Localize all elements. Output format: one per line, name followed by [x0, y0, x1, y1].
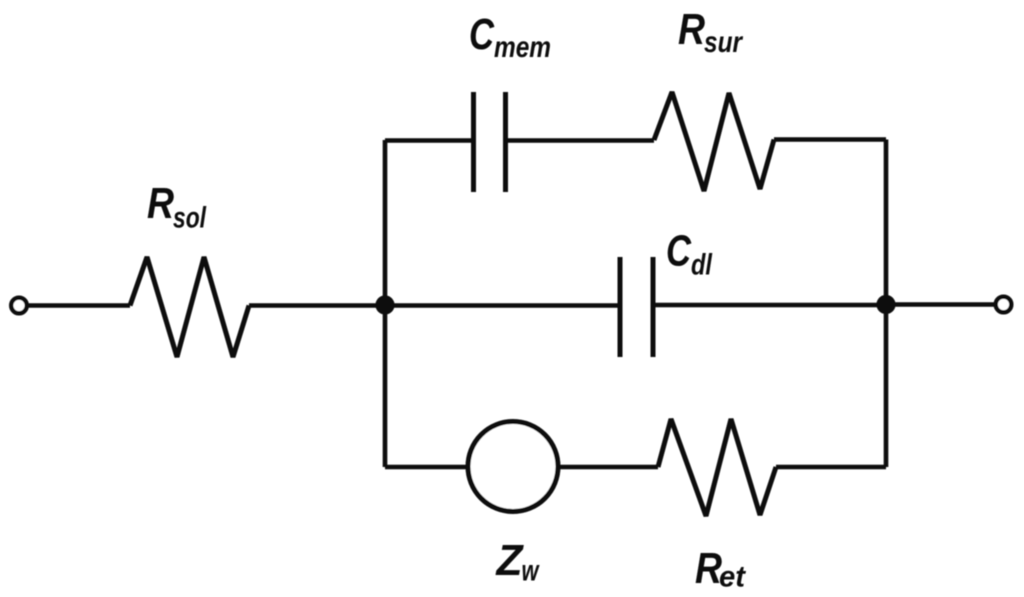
resistor R_sur	[654, 92, 774, 191]
label C_dl	[666, 228, 713, 282]
svg-text:R: R	[678, 6, 705, 54]
wire C_dl to node B	[653, 303, 886, 308]
wire R_sur to right corner	[774, 137, 886, 142]
node A junction dot	[375, 295, 394, 314]
svg-text:Z: Z	[495, 537, 524, 585]
resistor R_et	[658, 419, 776, 516]
wire bottom branch left	[385, 465, 468, 470]
label Z_w	[495, 537, 540, 588]
label C_mem	[469, 11, 551, 64]
svg-text:sol: sol	[173, 202, 206, 235]
svg-text:w: w	[522, 555, 540, 588]
svg-text:dl: dl	[691, 249, 713, 282]
svg-text:mem: mem	[494, 31, 551, 64]
label R_sur	[678, 6, 744, 59]
svg-text:R: R	[147, 180, 174, 228]
resistor R_sol	[130, 257, 249, 357]
svg-text:C: C	[666, 228, 691, 276]
wire Z_w to R_et	[558, 465, 658, 470]
capacitor C_dl	[620, 257, 653, 357]
wire R_et to right corner	[776, 465, 886, 470]
svg-text:et: et	[719, 561, 747, 594]
terminal right	[996, 297, 1012, 313]
terminal left	[11, 298, 27, 314]
capacitor C_mem	[474, 92, 506, 192]
wire top branch left	[385, 138, 474, 143]
svg-text:C: C	[469, 11, 494, 59]
svg-text:sur: sur	[704, 26, 744, 59]
wire left vertical branch	[383, 140, 388, 467]
Warburg element Z_w	[468, 422, 558, 512]
wire right vertical branch	[884, 140, 889, 468]
label R_et	[695, 545, 747, 594]
wire C_mem to R_sur	[506, 138, 655, 143]
node B junction dot	[876, 295, 895, 314]
wire node A to C_dl	[249, 303, 620, 308]
wire left lead	[27, 303, 130, 308]
label R_sol	[147, 180, 206, 235]
wire right lead	[886, 302, 996, 307]
